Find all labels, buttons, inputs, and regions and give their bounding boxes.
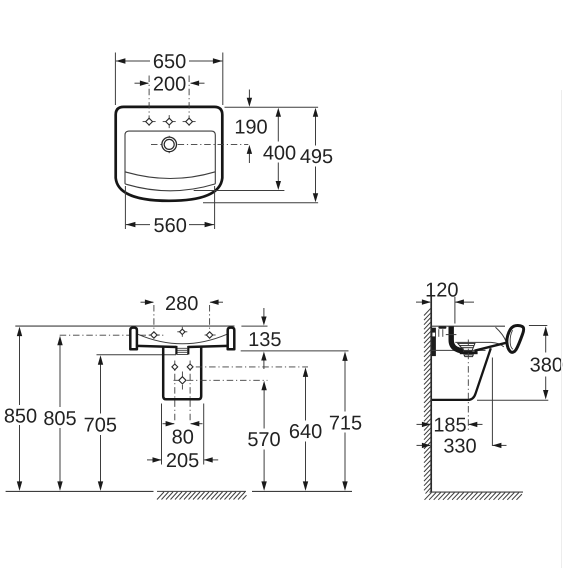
dimension 135 (front right of basin) [241,325,267,327]
ground line left (front) [6,490,154,492]
ground line right (front) [252,490,352,492]
dimension 495 (plan right) [315,115,317,196]
drain flange (side) [460,351,478,354]
front rim blade (side) [507,326,524,353]
trap recess left jamb (front) [175,346,177,355]
tap hole left (plan) [143,118,156,125]
dimension 200 (tap hole spacing, plan) [135,82,205,84]
faint page edge line right [561,90,563,568]
pedestal (front) [163,347,201,400]
dimension 205 (front bottom) [147,404,218,465]
fixing hole vertical dash-dot right 80 (front) [189,361,191,421]
basin outer outline (plan) [116,107,223,201]
svg-text:135: 135 [248,329,281,351]
center vertical dash-dot (front) [181,372,183,390]
pedestal top line (side) [431,349,485,351]
fixing hole centerline dash-dot 570 (front) [174,379,268,381]
drain circles (plan) [162,137,177,152]
svg-text:400: 400 [263,142,296,164]
svg-text:205: 205 [166,450,199,472]
svg-text:185: 185 [433,415,466,437]
svg-text:330: 330 [443,436,476,458]
drain centerline vertical tick (plan) [168,136,170,153]
dimension 190 (plan right) [248,90,250,164]
dimension 715 (front right) [344,354,346,488]
svg-text:80: 80 [172,427,194,449]
wall section solid bar (side) [432,328,436,356]
deck front dip curve (front) [138,334,227,344]
svg-text:120: 120 [425,280,458,302]
svg-text:715: 715 [329,413,362,435]
bowl waterline (side) [455,342,504,347]
wall line (side) [430,297,432,492]
bowl underside (side) [475,343,508,351]
dimension 805 (front left) [59,339,61,489]
drain centerline dash-dot vertical (side) [467,340,469,431]
fixing hole centerline dash-dot 640 (front) [196,366,308,368]
wall hatching (side) [424,308,431,493]
tap hole tick (side) [446,334,457,336]
drain funnel (side) [458,343,475,356]
svg-text:190: 190 [234,117,267,139]
deck tap hole left (front) [149,332,160,338]
extension line 495 bottom (plan) [203,202,318,204]
trap recess right jamb (front) [187,346,189,355]
right rim (front) [228,328,235,350]
dimension 560 (plan bottom) [125,186,214,229]
left rim (front) [130,328,137,350]
tap centerline dash-dot 805 (front) [60,334,166,336]
extension line 705 (front) [97,354,177,356]
svg-text:850: 850 [4,405,37,427]
deck tap hole middle (front) [177,327,187,337]
tap hole middle (plan) [163,115,176,128]
deck top line (side) [431,325,505,327]
dimension 400 (plan right) [277,115,279,183]
pedestal hole center (front) [179,377,186,384]
deck top line + 850 extension (front) [15,325,234,327]
tap hole right (plan) [183,118,196,125]
fixing notch in wall bar (side) [432,333,435,337]
basin underside right (front) [188,346,227,347]
deck tap hole right (front) [205,332,216,338]
dimension 650 (plan top width) [115,53,222,106]
dimension 80 (front bottom) [163,423,203,425]
dimension 570 (front right) [263,384,265,489]
centerline dash-dot through left tap hole (plan) [148,76,150,128]
svg-text:805: 805 [43,408,76,430]
svg-text:380: 380 [530,354,563,376]
bowl inner front wall (side) [496,327,507,342]
ground line (side) [430,491,524,493]
dimension 280 (front top) [141,301,224,303]
centerline dash-dot through right tap hole (plan) [188,76,190,128]
extension line 135 bottom / 715 top (front) [241,350,349,352]
basin inner bowl (plan) [125,131,215,191]
extension line top edge right (plan) [225,106,319,108]
trap recess lines (front) [176,348,188,354]
rim inner line (side) [510,330,513,349]
ground hatched segment (front) [157,491,247,499]
svg-text:200: 200 [153,74,186,96]
dimension 640 (front right) [305,370,307,488]
tap tube with elbow (side) [451,327,463,352]
hole centerline dash-dot left 280 (front) [153,305,155,340]
dimension 850 (front left) [19,330,21,489]
ground hatching (side) [425,493,522,500]
svg-text:495: 495 [300,146,333,168]
svg-text:280: 280 [165,293,198,315]
extension line 330 (side) [491,358,493,447]
pedestal front edge (side) [432,348,491,400]
drain centerline dash-dot horizontal (plan) [151,143,248,145]
pedestal hole left (front) [172,364,178,370]
dimension 380 (side right) [529,325,547,327]
svg-text:560: 560 [154,215,187,237]
fixing detail lines (side) [438,329,440,337]
svg-text:570: 570 [247,429,280,451]
dimension 330 (side bottom) [417,444,507,446]
basin underside left (front) [137,346,176,347]
svg-text:705: 705 [84,415,117,437]
svg-text:650: 650 [153,51,186,73]
pedestal hole right (front) [187,364,193,370]
fixing bolt (side) [438,326,446,328]
svg-text:640: 640 [289,421,322,443]
dimension 185 (side bottom) [417,423,483,425]
dimension 705 (front left) [100,358,102,488]
hole centerline dash-dot right 280 (front) [209,305,211,340]
extension line 400 bottom (plan) [194,190,285,192]
fixing hole vertical dash-dot left 80 (front) [174,361,176,421]
